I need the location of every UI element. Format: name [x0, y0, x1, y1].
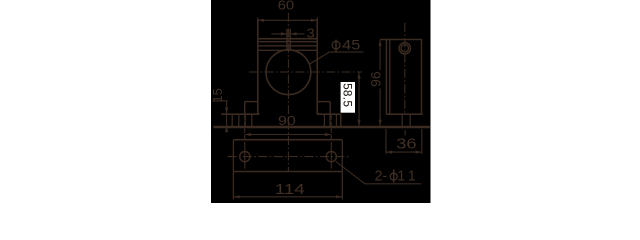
svg-text:96: 96 — [369, 71, 384, 87]
svg-text:90: 90 — [278, 114, 296, 128]
svg-text:36: 36 — [396, 135, 416, 152]
svg-text:1: 1 — [408, 168, 416, 184]
svg-text:1: 1 — [397, 168, 405, 184]
svg-text:114: 114 — [275, 182, 305, 198]
svg-text:60: 60 — [278, 0, 295, 13]
svg-text:15: 15 — [210, 88, 225, 102]
svg-text:45: 45 — [342, 37, 360, 52]
svg-text:2-: 2- — [375, 168, 388, 184]
svg-text:3: 3 — [307, 26, 315, 40]
svg-text:58.5: 58.5 — [340, 83, 354, 107]
